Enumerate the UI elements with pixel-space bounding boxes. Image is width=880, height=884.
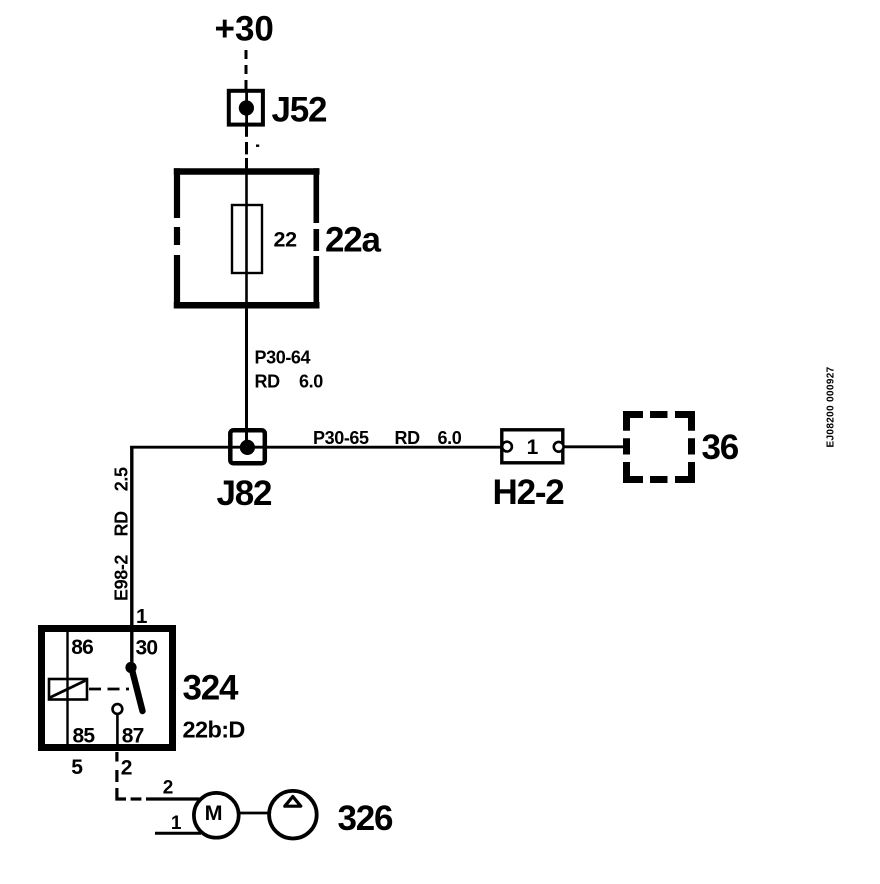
svg-text:86: 86 — [71, 636, 93, 659]
switch pivot dot — [125, 662, 136, 673]
svg-text:1: 1 — [527, 436, 539, 459]
svg-text:6.0: 6.0 — [299, 371, 323, 391]
fuse 22 — [232, 205, 262, 273]
wire H2-2 to 36 — [564, 445, 626, 448]
svg-text:2: 2 — [163, 777, 174, 798]
fuse box 22a (dashed border) — [174, 168, 320, 308]
svg-text:J52: J52 — [272, 91, 328, 130]
switch contact (open circle, pin 87) — [113, 704, 123, 714]
svg-text:5: 5 — [71, 756, 83, 779]
svg-text:EJ08200 000927: EJ08200 000927 — [826, 366, 837, 447]
wire from corner to J82 and on to H2-2 (net P30-65) — [130, 446, 501, 449]
svg-text:H2-2: H2-2 — [493, 473, 565, 512]
svg-text:P30-65: P30-65 — [313, 428, 369, 448]
junction J52 — [229, 91, 263, 125]
wire motor to pump — [239, 812, 269, 815]
svg-text:6.0: 6.0 — [438, 428, 462, 448]
svg-text:22b:D: 22b:D — [183, 717, 245, 743]
dashed wire from relay pin 87 to motor — [117, 752, 200, 799]
relay coil — [49, 679, 87, 700]
wire P30-64 from fusebox to J82 — [245, 309, 248, 441]
svg-text:+30: +30 — [215, 10, 274, 49]
wire pin 1 of motor — [155, 832, 201, 835]
connector H2-2 pin 1 — [502, 430, 564, 463]
dashed actuator link — [89, 688, 129, 691]
svg-text:22a: 22a — [325, 221, 382, 260]
svg-text:30: 30 — [136, 636, 158, 659]
wire through fuse box — [245, 168, 248, 309]
svg-text:P30-64: P30-64 — [255, 347, 311, 367]
switch arm — [132, 669, 143, 711]
svg-text:85: 85 — [73, 724, 96, 747]
svg-text:324: 324 — [183, 669, 240, 708]
wire dashed from J52 to fusebox 22a — [247, 126, 260, 168]
svg-text:RD: RD — [395, 428, 421, 448]
svg-text:326: 326 — [338, 799, 394, 838]
wire E98-2 from corner down to relay pin 30 — [130, 446, 133, 629]
pump symbol 326 — [269, 791, 317, 839]
junction J82 — [230, 430, 264, 463]
wire pin 87 inside relay — [116, 714, 119, 751]
svg-text:22: 22 — [274, 228, 298, 252]
svg-text:2: 2 — [121, 756, 133, 779]
svg-text:E98-2: E98-2 — [112, 555, 132, 601]
component 36 (dashed box) — [623, 411, 695, 483]
wire pin30 to switch pivot — [130, 629, 133, 665]
svg-text:87: 87 — [122, 724, 144, 747]
relay internal line pin 86-85 — [66, 632, 68, 746]
svg-text:1: 1 — [136, 605, 147, 628]
motor M — [194, 793, 239, 838]
svg-text:M: M — [205, 801, 223, 825]
svg-text:J82: J82 — [217, 474, 273, 513]
wire dashed from +30 to J52 — [245, 50, 248, 89]
svg-text:1: 1 — [171, 813, 182, 834]
svg-text:RD: RD — [255, 371, 281, 391]
svg-text:36: 36 — [702, 428, 739, 467]
svg-text:2.5: 2.5 — [112, 467, 132, 491]
svg-text:RD: RD — [112, 511, 132, 537]
relay 324 box — [42, 629, 173, 748]
